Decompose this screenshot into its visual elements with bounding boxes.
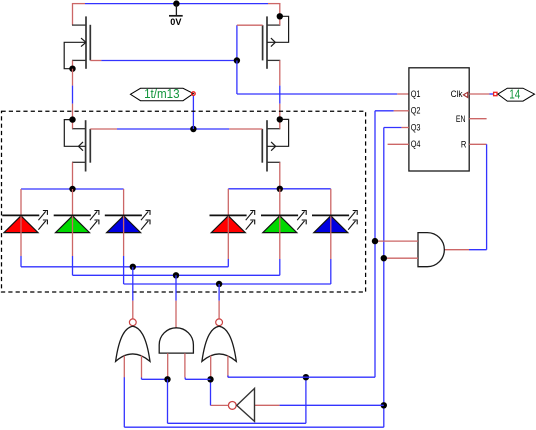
wire left LED bus — [21, 188, 124, 190]
junction Q2 bottom node — [303, 374, 309, 380]
wire D5 cathode down — [279, 259, 281, 275]
wire Q4 stub — [388, 143, 409, 145]
and gate U2 — [418, 233, 444, 267]
wire 0V top rail — [73, 3, 86, 5]
wire label 1t/m13 drop — [192, 96, 194, 130]
nor gate G1 (red LEDs) — [129, 319, 136, 326]
wire Q2 net vertical — [375, 110, 394, 112]
LED D2 green — [54, 189, 99, 256]
junction Q3-NOT input — [381, 402, 387, 408]
svg-text:Q1: Q1 — [411, 89, 421, 99]
wire T3 source to LED bus — [72, 162, 74, 189]
wire T2-T4 drain link — [279, 60, 281, 85]
junction T3 drain — [69, 116, 75, 122]
wire blue LED bus C — [124, 283, 331, 285]
wire T4 top stub — [279, 119, 281, 128]
transistor T2 (top-right MOSFET) — [266, 16, 268, 68]
wire T2 source stub — [279, 16, 281, 25]
LED D6 blue — [312, 189, 357, 259]
wire D6 cathode down — [330, 259, 332, 284]
wire NOR2 output riser — [218, 284, 220, 301]
junction AND in1 — [372, 238, 378, 244]
wire NOT input — [255, 404, 280, 406]
junction bus A — [130, 264, 136, 270]
junction T1 drain — [69, 66, 75, 72]
wire Q3 bottom run — [124, 426, 384, 428]
svg-text:R: R — [461, 140, 467, 150]
svg-text:EN: EN — [456, 114, 466, 124]
not gate G4 — [228, 402, 236, 410]
wire AND input 2 — [385, 257, 418, 259]
node label 1t/m13 — [130, 88, 193, 100]
wire AND2 output riser — [175, 275, 177, 300]
junction T4 drain — [277, 116, 283, 122]
wire T3 top stub — [72, 120, 74, 129]
junction bus C — [216, 281, 222, 287]
wire T1 source drop — [72, 3, 74, 25]
wire G1 right to G2 left link — [141, 378, 143, 380]
wire NOR1 output riser — [132, 267, 134, 301]
node label 14 — [498, 88, 535, 101]
wire Q3 net vertical — [384, 127, 402, 129]
wire EN stub — [469, 118, 486, 120]
junction gate bus row1 — [234, 57, 240, 63]
counter IC U1 — [409, 68, 469, 171]
wire D4 cathode down — [227, 259, 229, 267]
svg-text:Q3: Q3 — [411, 122, 421, 132]
pins G3 inputs — [210, 356, 212, 378]
svg-text:Clk: Clk — [451, 89, 463, 99]
transistor T4 (row2-right MOSFET) — [266, 120, 268, 171]
wire Q2 stub — [394, 110, 409, 112]
wire NOT output — [211, 404, 229, 406]
wire Q3 stub — [401, 127, 409, 129]
wire gate bus row2 — [90, 128, 117, 130]
wire D3 cathode down — [123, 256, 125, 284]
LED D3 blue — [105, 189, 150, 256]
wire Q2 bottom run — [228, 376, 375, 378]
junction left LED bus — [69, 186, 75, 192]
wire T4 source to LED bus — [279, 162, 281, 189]
svg-text:0V: 0V — [170, 17, 181, 27]
and gate G2 (green LEDs) — [159, 328, 193, 353]
wire right LED bus — [228, 188, 330, 190]
wire red LED bus A — [21, 266, 228, 268]
wire D2 cathode down — [72, 256, 74, 275]
pin marker label 14 — [494, 92, 497, 95]
wire G1 left input to Q3 net — [123, 377, 125, 427]
wire T1 drain to junction — [72, 60, 74, 68]
svg-text:1t/m13: 1t/m13 — [144, 86, 180, 101]
wire Q2 branch down — [167, 379, 169, 423]
junction AND in2 — [381, 255, 387, 261]
junction right LED bus — [277, 186, 283, 192]
wire gate riser to T2 — [236, 25, 238, 60]
svg-text:Q4: Q4 — [411, 139, 421, 149]
LED D4 red — [210, 189, 255, 259]
wire R to AND output — [469, 143, 486, 145]
pin Clk edge triangle — [463, 92, 467, 97]
svg-text:Q2: Q2 — [411, 106, 421, 116]
junction T2 source — [277, 13, 283, 19]
svg-text:14: 14 — [509, 86, 520, 101]
transistor T1 (top-left MOSFET) — [85, 16, 87, 68]
pins G1 inputs — [123, 356, 125, 378]
junction bus B — [173, 272, 179, 278]
wire NOT output riser — [210, 379, 212, 405]
junction Q2 branch node — [164, 376, 170, 382]
wire Q1 to gate bus — [236, 61, 238, 95]
LED D5 green — [261, 189, 306, 259]
wire NOT out to G2 input — [185, 378, 210, 380]
wire D1 cathode down — [20, 256, 22, 267]
wire Clk to label 14 — [469, 93, 489, 95]
transistor T3 (row2-left MOSFET) — [85, 120, 87, 171]
pins G2 inputs — [167, 353, 169, 377]
junction label tap — [190, 126, 196, 132]
wire T2 source drop — [279, 3, 281, 16]
wire green LED bus B — [73, 274, 280, 276]
wire gate bus row1 — [90, 60, 101, 62]
junction NOT output node — [207, 376, 213, 382]
nor gate G3 (blue LEDs) — [216, 319, 223, 326]
wire AND input 1 — [376, 240, 418, 242]
ground 0V symbol — [173, 0, 179, 6]
LED D1 red — [2, 189, 47, 256]
dashed enclosure — [2, 111, 366, 292]
wire T1-T3 drain link — [72, 69, 74, 86]
